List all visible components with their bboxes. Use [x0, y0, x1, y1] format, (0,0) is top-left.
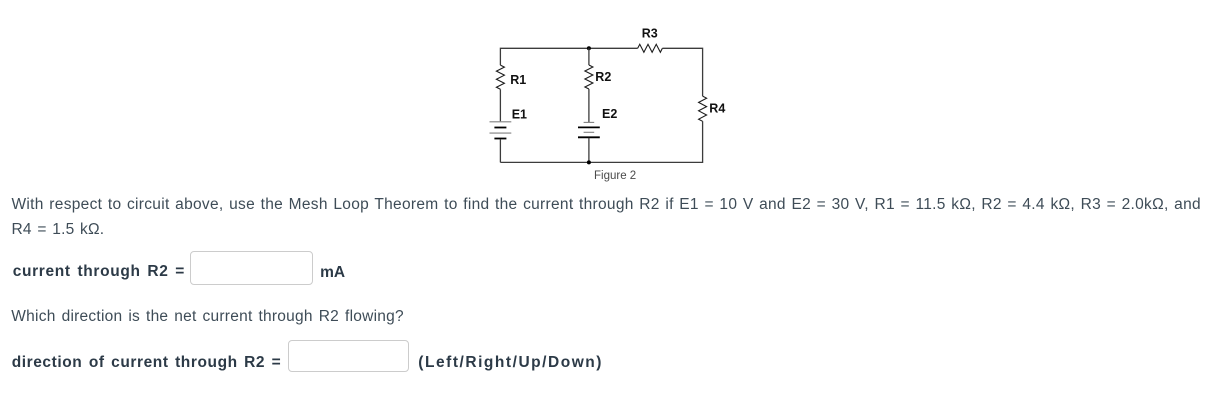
- answer label: current through R2 =: [13, 264, 185, 280]
- circuit schematic figure: [480, 15, 740, 190]
- svg-text:R2: R2: [595, 70, 611, 84]
- wire: top rail left segment (top-left corner to R3 left lead): [500, 48, 637, 65]
- options label: [418, 355, 603, 371]
- battery E2: long thick plate (bottom): [578, 136, 600, 138]
- battery E1: long thin plate (lower): [490, 132, 512, 134]
- svg-text:R4: R4: [709, 101, 725, 115]
- battery E1: short thick plate: [494, 127, 506, 129]
- input box 1: [190, 251, 313, 285]
- svg-text:E1: E1: [512, 108, 527, 122]
- input box 2: [288, 340, 409, 373]
- svg-text:R1: R1: [510, 73, 526, 87]
- svg-text:E2: E2: [602, 107, 617, 121]
- node: top junction dot at middle branch: [587, 46, 591, 50]
- battery E1: short thick plate (bottom): [494, 138, 506, 140]
- resistor R4 (vertical zigzag, right branch): [699, 96, 707, 121]
- unit label mA: [320, 265, 345, 281]
- node: bottom junction dot at middle branch: [587, 160, 591, 164]
- resistor R2 (vertical zigzag, middle branch): [585, 65, 593, 89]
- wire: top rail right segment (R3 right lead to top-right corner down to R4 top lead): [662, 48, 702, 96]
- wire: right branch between R4 and bottom rail, bottom rail to left: [500, 121, 702, 162]
- wire: left branch between R1 and E1: [499, 89, 501, 121]
- battery E1: long thin plate (top): [490, 121, 512, 123]
- wire: middle branch between R2 and E2: [588, 89, 590, 122]
- battery E2: long thick plate: [578, 126, 600, 128]
- wire: left branch bottom (E1 to bottom rail): [499, 139, 501, 162]
- svg-text:R3: R3: [642, 27, 658, 41]
- wire: middle branch top (junction to R2): [588, 48, 590, 65]
- wire: middle branch bottom (E2 to bottom rail): [588, 138, 590, 163]
- problem statement paragraph line 1: [12, 197, 1201, 213]
- battery E2: short thin plate (lower): [584, 131, 595, 133]
- battery E2: short thin plate (top): [584, 121, 595, 123]
- question: direction: [11, 309, 404, 325]
- resistor R3 (horizontal zigzag on top rail): [638, 44, 663, 52]
- svg-text:Figure 2: Figure 2: [594, 170, 636, 182]
- problem statement paragraph line 2: [12, 222, 105, 238]
- answer label: direction of current through R2 =: [12, 355, 282, 371]
- resistor R1 (vertical zigzag, left branch): [496, 65, 504, 89]
